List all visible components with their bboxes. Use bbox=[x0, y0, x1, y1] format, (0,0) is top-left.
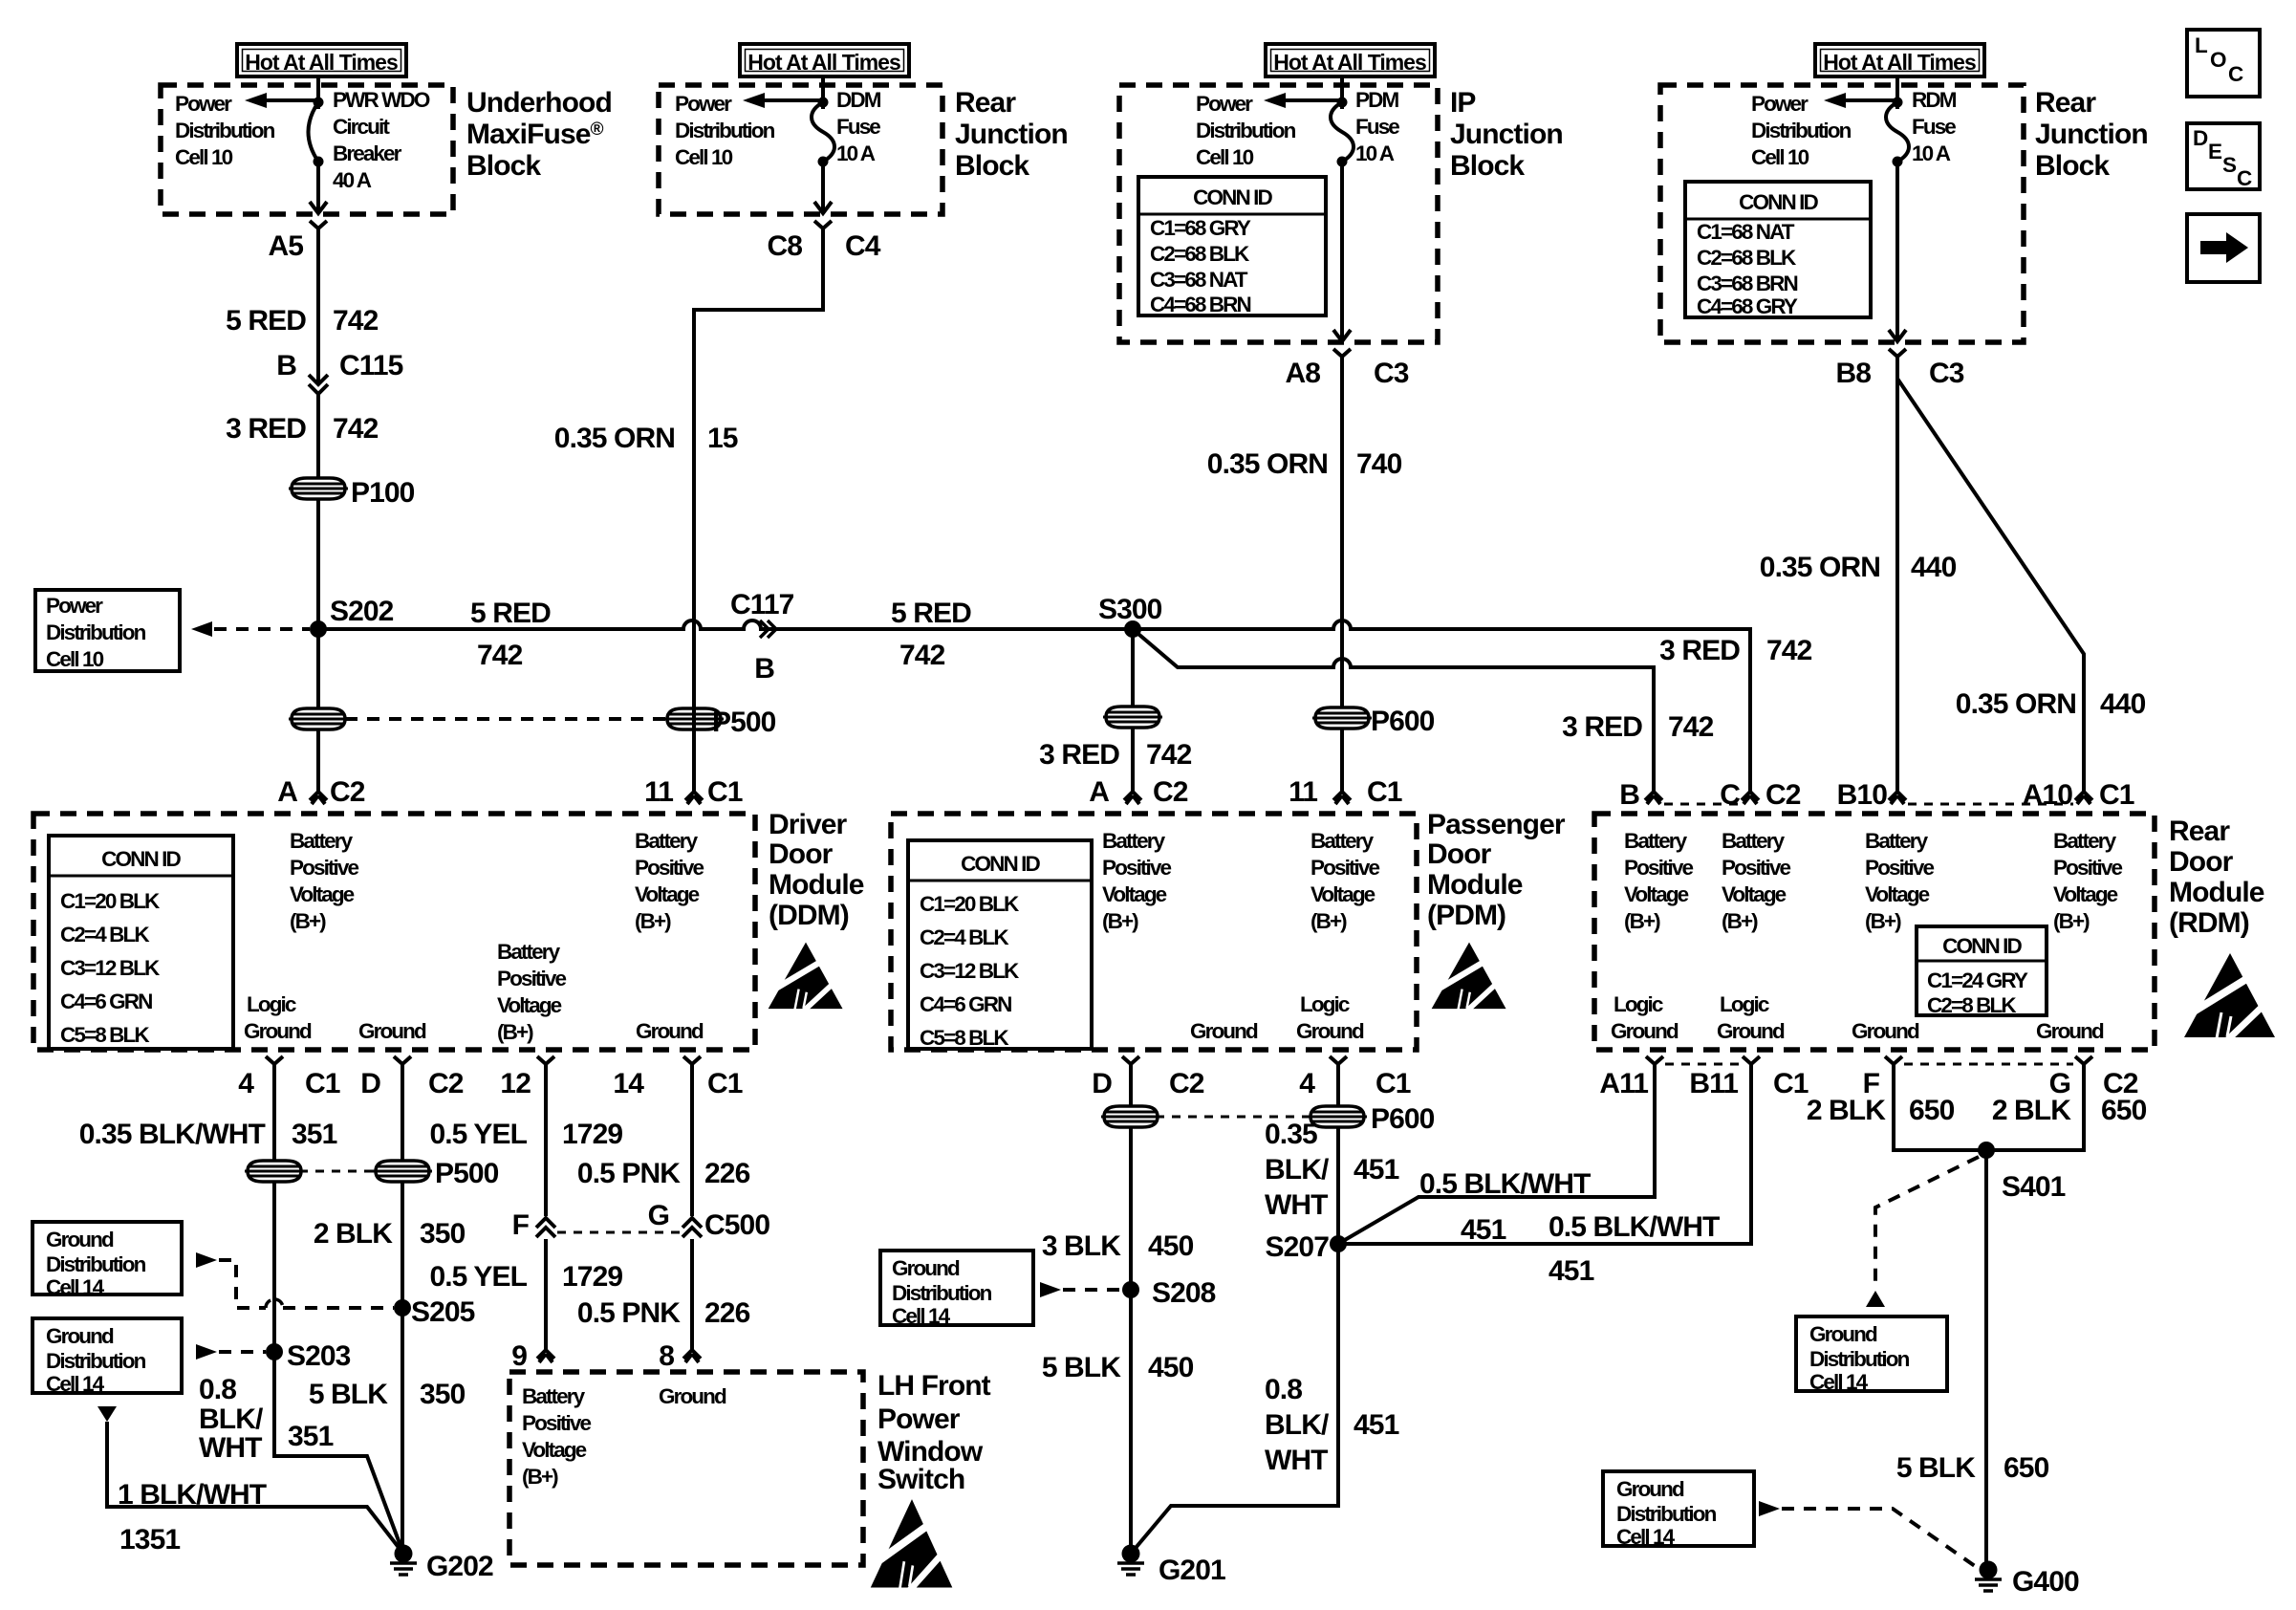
svg-text:Voltage: Voltage bbox=[635, 882, 700, 906]
svg-text:5 BLK: 5 BLK bbox=[1042, 1352, 1121, 1383]
svg-text:Distribution: Distribution bbox=[46, 620, 146, 644]
svg-text:0.35 ORN: 0.35 ORN bbox=[554, 423, 675, 454]
svg-text:Ground: Ground bbox=[2036, 1019, 2104, 1043]
svg-text:B10: B10 bbox=[1837, 779, 1888, 811]
svg-text:Block: Block bbox=[1450, 150, 1525, 182]
svg-text:P600: P600 bbox=[1371, 1103, 1435, 1135]
svg-text:Ground: Ground bbox=[46, 1228, 114, 1251]
svg-text:Ground: Ground bbox=[1809, 1322, 1877, 1346]
svg-text:12: 12 bbox=[500, 1068, 531, 1099]
svg-text:C1=20 BLK: C1=20 BLK bbox=[60, 889, 161, 913]
svg-text:Hot At All Times: Hot At All Times bbox=[1823, 50, 1976, 75]
svg-text:40 A: 40 A bbox=[333, 168, 372, 192]
svg-text:C2: C2 bbox=[1765, 779, 1801, 811]
svg-text:Ground: Ground bbox=[1611, 1019, 1679, 1043]
svg-text:0.5 YEL: 0.5 YEL bbox=[429, 1119, 527, 1150]
svg-text:(DDM): (DDM) bbox=[769, 900, 849, 931]
svg-text:A8: A8 bbox=[1285, 358, 1320, 389]
svg-text:Battery: Battery bbox=[2053, 829, 2117, 853]
svg-text:CONN ID: CONN ID bbox=[101, 847, 181, 871]
svg-text:Circuit: Circuit bbox=[333, 115, 390, 139]
svg-text:350: 350 bbox=[420, 1379, 466, 1410]
svg-text:Voltage: Voltage bbox=[497, 993, 562, 1017]
svg-text:P600: P600 bbox=[1371, 706, 1435, 737]
svg-text:3 BLK: 3 BLK bbox=[1042, 1230, 1121, 1262]
svg-text:0.5 PNK: 0.5 PNK bbox=[577, 1297, 681, 1329]
svg-text:D: D bbox=[360, 1068, 380, 1099]
svg-text:Ground: Ground bbox=[1717, 1019, 1785, 1043]
svg-text:C1: C1 bbox=[1375, 1068, 1411, 1099]
svg-text:Distribution: Distribution bbox=[1809, 1347, 1910, 1371]
svg-text:Breaker: Breaker bbox=[333, 141, 402, 165]
svg-text:C2=8 BLK: C2=8 BLK bbox=[1927, 993, 2017, 1017]
svg-text:C2: C2 bbox=[1153, 776, 1188, 808]
svg-text:PDM: PDM bbox=[1355, 88, 1398, 112]
svg-text:Battery: Battery bbox=[1102, 829, 1166, 853]
svg-text:10 A: 10 A bbox=[836, 141, 876, 165]
svg-text:Module: Module bbox=[2169, 877, 2264, 908]
svg-text:650: 650 bbox=[2101, 1095, 2147, 1126]
svg-text:Ground: Ground bbox=[892, 1256, 960, 1280]
svg-text:Positive: Positive bbox=[497, 967, 566, 990]
svg-text:226: 226 bbox=[704, 1158, 750, 1189]
svg-text:C3=68 NAT: C3=68 NAT bbox=[1150, 268, 1248, 292]
svg-text:Distribution: Distribution bbox=[1616, 1502, 1717, 1526]
svg-text:4: 4 bbox=[238, 1068, 254, 1099]
svg-text:Cell 14: Cell 14 bbox=[1616, 1525, 1676, 1549]
svg-text:742: 742 bbox=[333, 305, 379, 337]
svg-text:440: 440 bbox=[1911, 552, 1957, 583]
svg-text:350: 350 bbox=[420, 1218, 466, 1250]
svg-text:MaxiFuse®: MaxiFuse® bbox=[466, 119, 604, 150]
svg-text:Distribution: Distribution bbox=[46, 1252, 146, 1276]
svg-text:LH Front: LH Front bbox=[877, 1370, 991, 1402]
svg-text:Voltage: Voltage bbox=[1310, 882, 1375, 906]
svg-text:Junction: Junction bbox=[1450, 119, 1563, 150]
svg-text:3 RED: 3 RED bbox=[1659, 635, 1740, 666]
svg-text:S203: S203 bbox=[287, 1340, 351, 1372]
svg-text:A11: A11 bbox=[1599, 1068, 1648, 1099]
svg-text:Logic: Logic bbox=[1614, 992, 1663, 1016]
svg-text:Block: Block bbox=[2035, 150, 2110, 182]
svg-text:A5: A5 bbox=[268, 230, 303, 262]
svg-text:Rear: Rear bbox=[2169, 816, 2230, 847]
svg-text:C1=68 GRY: C1=68 GRY bbox=[1150, 216, 1251, 240]
svg-text:(B+): (B+) bbox=[290, 909, 326, 933]
svg-text:(PDM): (PDM) bbox=[1427, 900, 1505, 931]
svg-text:Cell 10: Cell 10 bbox=[1751, 145, 1809, 169]
svg-text:S207: S207 bbox=[1266, 1231, 1330, 1263]
svg-text:S: S bbox=[2222, 153, 2237, 177]
svg-text:Logic: Logic bbox=[1720, 992, 1769, 1016]
svg-text:Battery: Battery bbox=[522, 1384, 586, 1408]
svg-text:Ground: Ground bbox=[636, 1019, 704, 1043]
svg-text:Distribution: Distribution bbox=[1196, 119, 1296, 142]
svg-text:Underhood: Underhood bbox=[466, 87, 612, 119]
svg-text:(B+): (B+) bbox=[635, 909, 671, 933]
svg-text:Fuse: Fuse bbox=[1912, 115, 1956, 139]
svg-text:Voltage: Voltage bbox=[522, 1438, 587, 1462]
svg-text:351: 351 bbox=[288, 1421, 334, 1452]
svg-text:450: 450 bbox=[1148, 1352, 1194, 1383]
svg-text:(B+): (B+) bbox=[1624, 909, 1660, 933]
svg-text:2 BLK: 2 BLK bbox=[1807, 1095, 1886, 1126]
svg-text:0.35 BLK/WHT: 0.35 BLK/WHT bbox=[79, 1119, 266, 1150]
svg-text:Power: Power bbox=[175, 92, 232, 116]
svg-text:C4=6 GRN: C4=6 GRN bbox=[920, 992, 1011, 1016]
svg-text:C3: C3 bbox=[1374, 358, 1409, 389]
svg-text:Voltage: Voltage bbox=[1722, 882, 1787, 906]
svg-text:C1: C1 bbox=[707, 776, 743, 808]
svg-text:CONN ID: CONN ID bbox=[1193, 185, 1272, 209]
svg-text:C5=8 BLK: C5=8 BLK bbox=[920, 1026, 1009, 1050]
svg-text:C1: C1 bbox=[707, 1068, 743, 1099]
svg-text:C1=68 NAT: C1=68 NAT bbox=[1697, 220, 1795, 244]
svg-text:Ground: Ground bbox=[1852, 1019, 1919, 1043]
svg-text:C2=4 BLK: C2=4 BLK bbox=[920, 925, 1009, 949]
svg-text:14: 14 bbox=[613, 1068, 644, 1099]
svg-text:742: 742 bbox=[333, 413, 379, 445]
svg-text:DDM: DDM bbox=[836, 88, 881, 112]
svg-text:Door: Door bbox=[769, 838, 834, 870]
svg-text:C3=12 BLK: C3=12 BLK bbox=[920, 959, 1020, 983]
svg-text:CONN ID: CONN ID bbox=[961, 852, 1040, 876]
svg-text:Voltage: Voltage bbox=[290, 882, 355, 906]
svg-text:(B+): (B+) bbox=[1865, 909, 1901, 933]
svg-text:C117: C117 bbox=[730, 589, 794, 620]
svg-text:451: 451 bbox=[1354, 1409, 1399, 1441]
svg-text:Positive: Positive bbox=[635, 856, 704, 880]
svg-text:Cell 10: Cell 10 bbox=[46, 647, 104, 671]
svg-text:Power: Power bbox=[1751, 92, 1809, 116]
svg-text:P500: P500 bbox=[435, 1158, 499, 1189]
svg-text:Module: Module bbox=[1427, 869, 1523, 901]
svg-text:650: 650 bbox=[1909, 1095, 1955, 1126]
svg-text:Power: Power bbox=[675, 92, 732, 116]
svg-text:Driver: Driver bbox=[769, 809, 848, 840]
svg-text:B8: B8 bbox=[1835, 358, 1871, 389]
svg-text:742: 742 bbox=[477, 640, 523, 671]
svg-text:BLK/: BLK/ bbox=[1265, 1409, 1330, 1441]
svg-text:Block: Block bbox=[466, 150, 541, 182]
svg-text:351: 351 bbox=[292, 1119, 337, 1150]
svg-text:5 RED: 5 RED bbox=[226, 305, 306, 337]
svg-text:Rear: Rear bbox=[955, 87, 1016, 119]
svg-text:A: A bbox=[1089, 776, 1109, 808]
svg-text:15: 15 bbox=[707, 423, 738, 454]
svg-text:0.5 BLK/WHT: 0.5 BLK/WHT bbox=[1549, 1211, 1720, 1243]
svg-text:D: D bbox=[2193, 126, 2208, 150]
svg-text:Distribution: Distribution bbox=[46, 1349, 146, 1373]
svg-text:740: 740 bbox=[1356, 448, 1402, 480]
svg-text:Positive: Positive bbox=[1722, 856, 1790, 880]
svg-text:G202: G202 bbox=[426, 1551, 493, 1582]
svg-text:O: O bbox=[2210, 48, 2226, 72]
svg-text:1729: 1729 bbox=[562, 1261, 622, 1293]
svg-text:IP: IP bbox=[1450, 87, 1476, 119]
svg-text:5 BLK: 5 BLK bbox=[1896, 1452, 1976, 1484]
svg-text:Battery: Battery bbox=[290, 829, 354, 853]
svg-text:C: C bbox=[2228, 62, 2243, 86]
svg-text:450: 450 bbox=[1148, 1230, 1194, 1262]
svg-text:Ground: Ground bbox=[244, 1019, 312, 1043]
svg-text:742: 742 bbox=[1146, 739, 1192, 771]
svg-text:C1: C1 bbox=[2099, 779, 2134, 811]
svg-text:C1: C1 bbox=[1773, 1068, 1809, 1099]
svg-text:Ground: Ground bbox=[46, 1324, 114, 1348]
svg-text:S205: S205 bbox=[411, 1296, 475, 1328]
svg-text:Voltage: Voltage bbox=[2053, 882, 2118, 906]
svg-text:B: B bbox=[276, 350, 296, 381]
svg-text:(B+): (B+) bbox=[1310, 909, 1347, 933]
svg-text:451: 451 bbox=[1354, 1154, 1399, 1186]
svg-text:Ground: Ground bbox=[659, 1384, 726, 1408]
svg-text:Battery: Battery bbox=[1624, 829, 1688, 853]
svg-text:Fuse: Fuse bbox=[836, 115, 880, 139]
svg-text:C2=4 BLK: C2=4 BLK bbox=[60, 923, 150, 946]
svg-text:3 RED: 3 RED bbox=[1039, 739, 1119, 771]
svg-text:G201: G201 bbox=[1159, 1555, 1225, 1586]
svg-text:Battery: Battery bbox=[497, 940, 561, 964]
svg-text:BLK/: BLK/ bbox=[199, 1403, 264, 1435]
svg-text:0.35 ORN: 0.35 ORN bbox=[1760, 552, 1880, 583]
svg-text:C4: C4 bbox=[845, 230, 881, 262]
svg-text:Cell 10: Cell 10 bbox=[175, 145, 233, 169]
svg-text:BLK/: BLK/ bbox=[1265, 1154, 1330, 1186]
svg-text:C1=24 GRY: C1=24 GRY bbox=[1927, 968, 2028, 992]
svg-text:C3=68 BRN: C3=68 BRN bbox=[1697, 272, 1797, 295]
svg-text:(B+): (B+) bbox=[497, 1020, 533, 1044]
svg-text:Battery: Battery bbox=[1310, 829, 1375, 853]
svg-text:Cell 14: Cell 14 bbox=[46, 1372, 105, 1396]
svg-text:Power: Power bbox=[877, 1403, 961, 1435]
svg-text:C: C bbox=[1720, 779, 1740, 811]
svg-text:Positive: Positive bbox=[522, 1411, 591, 1435]
svg-text:WHT: WHT bbox=[199, 1432, 262, 1464]
svg-text:Module: Module bbox=[769, 869, 864, 901]
svg-text:Passenger: Passenger bbox=[1427, 809, 1566, 840]
svg-text:B11: B11 bbox=[1689, 1068, 1738, 1099]
svg-text:C500: C500 bbox=[704, 1209, 769, 1241]
svg-text:Cell 10: Cell 10 bbox=[1196, 145, 1254, 169]
svg-text:C1: C1 bbox=[1367, 776, 1402, 808]
svg-text:11: 11 bbox=[644, 776, 673, 808]
svg-text:Voltage: Voltage bbox=[1624, 882, 1689, 906]
svg-text:Cell 14: Cell 14 bbox=[892, 1304, 951, 1328]
svg-text:Junction: Junction bbox=[955, 119, 1068, 150]
svg-text:0.5 PNK: 0.5 PNK bbox=[577, 1158, 681, 1189]
svg-text:2 BLK: 2 BLK bbox=[1992, 1095, 2071, 1126]
svg-text:C2: C2 bbox=[428, 1068, 464, 1099]
svg-text:5 RED: 5 RED bbox=[470, 598, 551, 629]
svg-text:10 A: 10 A bbox=[1355, 141, 1395, 165]
svg-text:Ground: Ground bbox=[1296, 1019, 1364, 1043]
svg-text:Block: Block bbox=[955, 150, 1029, 182]
svg-text:(B+): (B+) bbox=[1722, 909, 1758, 933]
svg-text:Distribution: Distribution bbox=[675, 119, 775, 142]
svg-text:WHT: WHT bbox=[1265, 1189, 1328, 1221]
svg-text:C2=68 BLK: C2=68 BLK bbox=[1697, 246, 1797, 270]
svg-text:1729: 1729 bbox=[562, 1119, 622, 1150]
svg-text:Positive: Positive bbox=[1865, 856, 1934, 880]
svg-text:0.35: 0.35 bbox=[1265, 1119, 1317, 1150]
svg-text:Ground: Ground bbox=[1190, 1019, 1258, 1043]
svg-text:451: 451 bbox=[1549, 1255, 1594, 1287]
svg-text:PWR WDO: PWR WDO bbox=[333, 88, 430, 112]
svg-text:Positive: Positive bbox=[1310, 856, 1379, 880]
svg-text:G: G bbox=[648, 1200, 669, 1231]
svg-text:(B+): (B+) bbox=[522, 1465, 558, 1489]
svg-text:11: 11 bbox=[1289, 776, 1317, 808]
svg-text:Positive: Positive bbox=[1102, 856, 1171, 880]
svg-text:742: 742 bbox=[1766, 635, 1812, 666]
svg-text:0.5 YEL: 0.5 YEL bbox=[429, 1261, 527, 1293]
svg-text:C115: C115 bbox=[339, 350, 403, 381]
svg-text:C3: C3 bbox=[1929, 358, 1964, 389]
svg-text:S300: S300 bbox=[1098, 594, 1162, 625]
svg-text:Door: Door bbox=[1427, 838, 1492, 870]
svg-text:CONN ID: CONN ID bbox=[1739, 190, 1818, 214]
svg-text:(B+): (B+) bbox=[2053, 909, 2090, 933]
svg-text:742: 742 bbox=[899, 640, 945, 671]
svg-text:3 RED: 3 RED bbox=[1562, 711, 1642, 743]
svg-text:Battery: Battery bbox=[1865, 829, 1929, 853]
svg-text:5 RED: 5 RED bbox=[891, 598, 971, 629]
svg-text:A: A bbox=[277, 776, 297, 808]
svg-text:C1: C1 bbox=[305, 1068, 340, 1099]
svg-text:C5=8 BLK: C5=8 BLK bbox=[60, 1023, 150, 1047]
svg-text:Hot At All Times: Hot At All Times bbox=[1273, 50, 1426, 75]
svg-text:WHT: WHT bbox=[1265, 1445, 1328, 1476]
svg-text:E: E bbox=[2208, 140, 2222, 163]
svg-text:Distribution: Distribution bbox=[1751, 119, 1852, 142]
svg-text:C3=12 BLK: C3=12 BLK bbox=[60, 956, 161, 980]
svg-text:C2: C2 bbox=[1169, 1068, 1204, 1099]
svg-text:650: 650 bbox=[2004, 1452, 2049, 1484]
svg-text:Logic: Logic bbox=[247, 992, 296, 1016]
svg-text:Voltage: Voltage bbox=[1102, 882, 1167, 906]
svg-text:0.35 ORN: 0.35 ORN bbox=[1207, 448, 1328, 480]
svg-text:C4=6 GRN: C4=6 GRN bbox=[60, 990, 152, 1013]
svg-text:Power: Power bbox=[1196, 92, 1253, 116]
svg-text:(B+): (B+) bbox=[1102, 909, 1138, 933]
svg-text:S202: S202 bbox=[330, 596, 394, 627]
svg-text:S401: S401 bbox=[2002, 1171, 2066, 1203]
svg-text:440: 440 bbox=[2100, 688, 2146, 720]
svg-text:C2: C2 bbox=[330, 776, 365, 808]
svg-text:1 BLK/WHT: 1 BLK/WHT bbox=[118, 1479, 267, 1511]
svg-text:226: 226 bbox=[704, 1297, 750, 1329]
svg-text:CONN ID: CONN ID bbox=[1942, 934, 2022, 958]
svg-text:C4=68 GRY: C4=68 GRY bbox=[1697, 294, 1798, 318]
svg-text:742: 742 bbox=[1668, 711, 1714, 743]
svg-text:B: B bbox=[1619, 779, 1639, 811]
svg-text:Ground: Ground bbox=[358, 1019, 426, 1043]
svg-text:451: 451 bbox=[1461, 1214, 1506, 1246]
svg-text:B: B bbox=[754, 653, 774, 685]
svg-text:Hot At All Times: Hot At All Times bbox=[747, 50, 900, 75]
svg-text:0.8: 0.8 bbox=[1265, 1374, 1302, 1405]
svg-text:Distribution: Distribution bbox=[175, 119, 275, 142]
svg-text:5 BLK: 5 BLK bbox=[309, 1379, 388, 1410]
svg-text:RDM: RDM bbox=[1912, 88, 1957, 112]
svg-text:0.8: 0.8 bbox=[199, 1374, 236, 1405]
svg-text:Switch: Switch bbox=[877, 1464, 964, 1495]
svg-text:Junction: Junction bbox=[2035, 119, 2148, 150]
svg-text:0.5 BLK/WHT: 0.5 BLK/WHT bbox=[1419, 1168, 1591, 1200]
svg-text:C1=20 BLK: C1=20 BLK bbox=[920, 892, 1020, 916]
svg-text:Voltage: Voltage bbox=[1865, 882, 1930, 906]
svg-text:Ground: Ground bbox=[1616, 1477, 1684, 1501]
svg-text:G400: G400 bbox=[2012, 1566, 2079, 1598]
svg-text:Power: Power bbox=[46, 594, 103, 618]
svg-text:F: F bbox=[512, 1209, 530, 1241]
svg-text:Distribution: Distribution bbox=[892, 1281, 992, 1305]
svg-text:Positive: Positive bbox=[1624, 856, 1693, 880]
svg-text:10 A: 10 A bbox=[1912, 141, 1951, 165]
svg-text:Cell 14: Cell 14 bbox=[1809, 1370, 1869, 1394]
svg-text:Cell 14: Cell 14 bbox=[46, 1275, 105, 1299]
svg-text:A10: A10 bbox=[2023, 779, 2073, 811]
svg-text:C4=68 BRN: C4=68 BRN bbox=[1150, 293, 1250, 316]
svg-text:D: D bbox=[1092, 1068, 1112, 1099]
svg-text:Battery: Battery bbox=[635, 829, 699, 853]
svg-text:Cell 10: Cell 10 bbox=[675, 145, 733, 169]
svg-text:Hot At All Times: Hot At All Times bbox=[245, 50, 398, 75]
svg-text:(RDM): (RDM) bbox=[2169, 907, 2249, 939]
svg-text:4: 4 bbox=[1299, 1068, 1315, 1099]
svg-text:1351: 1351 bbox=[119, 1524, 180, 1556]
svg-text:Logic: Logic bbox=[1300, 992, 1350, 1016]
svg-text:P500: P500 bbox=[712, 707, 776, 738]
svg-text:P100: P100 bbox=[351, 477, 415, 509]
svg-text:Rear: Rear bbox=[2035, 87, 2096, 119]
svg-text:8: 8 bbox=[659, 1340, 674, 1372]
svg-text:2 BLK: 2 BLK bbox=[314, 1218, 393, 1250]
svg-text:Battery: Battery bbox=[1722, 829, 1786, 853]
svg-text:S208: S208 bbox=[1152, 1277, 1216, 1309]
svg-text:Door: Door bbox=[2169, 846, 2234, 878]
svg-text:C2=68 BLK: C2=68 BLK bbox=[1150, 242, 1250, 266]
svg-text:C: C bbox=[2237, 166, 2252, 190]
svg-text:C8: C8 bbox=[767, 230, 802, 262]
svg-text:Fuse: Fuse bbox=[1355, 115, 1399, 139]
svg-text:Positive: Positive bbox=[290, 856, 358, 880]
svg-text:9: 9 bbox=[511, 1340, 527, 1372]
svg-text:Positive: Positive bbox=[2053, 856, 2122, 880]
svg-text:0.35 ORN: 0.35 ORN bbox=[1956, 688, 2076, 720]
svg-text:3 RED: 3 RED bbox=[226, 413, 306, 445]
